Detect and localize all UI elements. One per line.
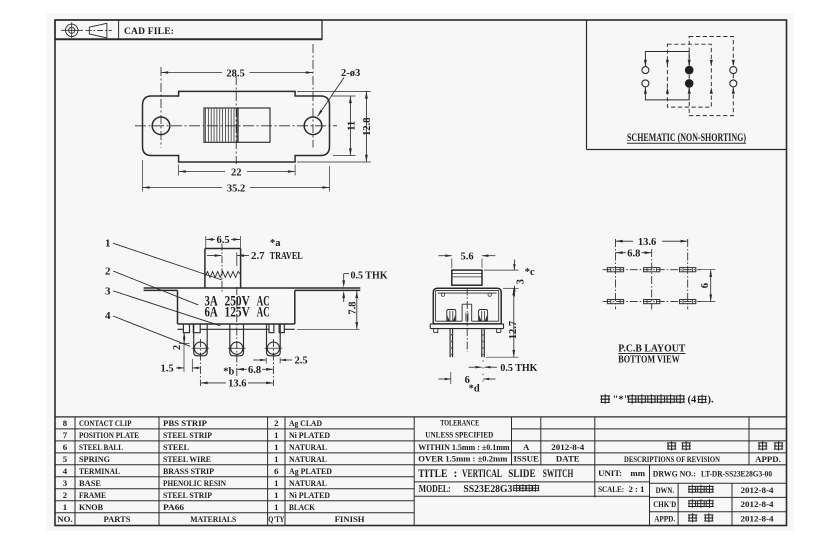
svg-text:2012-8-4: 2012-8-4 bbox=[741, 514, 775, 524]
svg-text:SCHEMATIC (NON-SHORTING): SCHEMATIC (NON-SHORTING) bbox=[627, 132, 746, 144]
dim 35.2 bbox=[142, 160, 144, 192]
svg-text:TERMINAL: TERMINAL bbox=[79, 466, 120, 476]
svg-text:DATE: DATE bbox=[556, 454, 580, 464]
svg-text:ISSUE: ISSUE bbox=[513, 454, 539, 464]
dim 12.7 bbox=[503, 287, 519, 289]
title header box bbox=[55, 20, 322, 39]
svg-text:NATURAL: NATURAL bbox=[289, 454, 327, 464]
svg-text:6: 6 bbox=[274, 466, 279, 476]
svg-text:*b: *b bbox=[223, 366, 234, 377]
svg-text:6.8: 6.8 bbox=[627, 248, 640, 259]
svg-text:6.5: 6.5 bbox=[216, 235, 229, 246]
side view: bottom flange bbox=[430, 324, 503, 329]
svg-text:FRAME: FRAME bbox=[79, 490, 106, 500]
svg-text:TITLE: TITLE bbox=[418, 468, 447, 480]
svg-text:2: 2 bbox=[63, 490, 68, 500]
svg-text:BOTTOM VIEW: BOTTOM VIEW bbox=[618, 354, 680, 366]
svg-text:0.5 THK: 0.5 THK bbox=[500, 363, 538, 374]
svg-text:CONTACT CLIP: CONTACT CLIP bbox=[79, 418, 132, 428]
top view: body vertical centerline bbox=[235, 76, 237, 164]
svg-text:4: 4 bbox=[105, 310, 111, 322]
svg-text:6: 6 bbox=[700, 283, 711, 288]
dim 13.6 (pcb) bbox=[616, 240, 634, 242]
front view: knob with break zigzag bbox=[205, 248, 241, 250]
svg-text:NO.: NO. bbox=[57, 514, 72, 524]
svg-text:Ni PLATED: Ni PLATED bbox=[289, 490, 330, 500]
side view: leg centerlines bbox=[450, 334, 452, 356]
schematic: dashed slider frame A bbox=[667, 44, 711, 107]
side view: right terminal section bbox=[479, 310, 488, 322]
side view: center post bbox=[462, 304, 472, 321]
svg-text:STEEL: STEEL bbox=[163, 442, 189, 452]
top view: right mounting hole bbox=[304, 117, 322, 135]
svg-text:8: 8 bbox=[63, 418, 68, 428]
top view: knob hatched grip bbox=[204, 108, 238, 142]
svg-text:5.6: 5.6 bbox=[460, 252, 473, 263]
svg-text:LT-DR-SS23E28G3-00: LT-DR-SS23E28G3-00 bbox=[701, 468, 772, 478]
svg-text:PARTS: PARTS bbox=[104, 514, 131, 524]
svg-text:1: 1 bbox=[274, 430, 278, 440]
dim 3 bbox=[484, 269, 519, 271]
front view: terminals bbox=[194, 325, 208, 356]
first-angle projection symbol: circle bbox=[66, 24, 78, 36]
svg-text:KNOB: KNOB bbox=[79, 502, 103, 512]
svg-text:MODEL:: MODEL: bbox=[419, 483, 451, 495]
svg-text:PBS STRIP: PBS STRIP bbox=[163, 418, 207, 428]
top view: left mounting hole bbox=[152, 117, 170, 135]
svg-text:2: 2 bbox=[105, 266, 111, 278]
svg-text:Ni PLATED: Ni PLATED bbox=[289, 430, 330, 440]
top view: right hole centerline bbox=[312, 44, 314, 148]
side view: floor line bbox=[436, 320, 499, 322]
pcb layout: column centerlines bbox=[615, 239, 617, 309]
svg-text:7.8: 7.8 bbox=[347, 301, 358, 314]
note (chinese): key dimensions bbox=[600, 394, 610, 404]
top view: switch plate outline bbox=[143, 91, 330, 162]
svg-text:NATURAL: NATURAL bbox=[289, 442, 327, 452]
svg-text:STEEL STRIP: STEEL STRIP bbox=[163, 490, 212, 500]
svg-text:Ag CLAD: Ag CLAD bbox=[289, 418, 322, 428]
front view: knob centerline bbox=[221, 244, 223, 292]
dim label 2-o3 leader bbox=[318, 78, 345, 117]
side view: left terminal section bbox=[447, 310, 456, 322]
dim 6.8 (pcb) bbox=[616, 252, 627, 254]
schematic: open terminals bbox=[642, 67, 649, 74]
svg-text:3: 3 bbox=[105, 285, 111, 297]
svg-text:DWN.: DWN. bbox=[656, 485, 675, 495]
parts table grid bbox=[55, 416, 787, 418]
schematic: common terminals (filled) bbox=[685, 66, 694, 75]
schematic: solid wire top bbox=[645, 52, 689, 67]
svg-text:APPD.: APPD. bbox=[755, 454, 781, 464]
svg-text:125V: 125V bbox=[225, 305, 251, 321]
svg-text:*a: *a bbox=[270, 238, 281, 249]
dim 2.7 TRAVEL bbox=[236, 253, 238, 267]
svg-text:SWITCH: SWITCH bbox=[543, 468, 574, 480]
svg-text:UNLESS SPECIFIED: UNLESS SPECIFIED bbox=[425, 429, 493, 439]
svg-text:WITHIN 1.5mm : ±0.1mm: WITHIN 1.5mm : ±0.1mm bbox=[418, 442, 510, 452]
svg-text:1: 1 bbox=[274, 478, 278, 488]
svg-text:1: 1 bbox=[274, 502, 278, 512]
svg-text:6: 6 bbox=[63, 442, 68, 452]
top view: knob slider body bbox=[238, 108, 270, 142]
svg-text:CAD FILE:: CAD FILE: bbox=[124, 27, 174, 37]
side view: PCB legs bbox=[450, 329, 453, 358]
svg-text:SS23E28G3: SS23E28G3 bbox=[463, 483, 512, 495]
svg-text:(4: (4 bbox=[688, 395, 697, 406]
svg-text:UNIT: UNIT bbox=[598, 468, 620, 478]
dim 1.5 bbox=[183, 333, 185, 372]
svg-text:4: 4 bbox=[63, 466, 68, 476]
schematic: contact arrows bbox=[644, 60, 647, 66]
dim 0.5 THK (leg) bbox=[469, 366, 482, 368]
front view: terminal centerlines bbox=[199, 339, 201, 386]
dim 6 (pcb) bbox=[699, 269, 715, 271]
svg-text:AC: AC bbox=[257, 305, 270, 321]
svg-text::: : bbox=[619, 468, 622, 478]
svg-text:"*": "*" bbox=[613, 395, 630, 406]
svg-text:*c: *c bbox=[525, 267, 535, 278]
first-angle projection symbol: cone bbox=[89, 23, 107, 38]
dim 22 bbox=[178, 165, 180, 176]
pcb layout: pads bbox=[607, 268, 623, 272]
svg-text:PHENOLIC RESIN: PHENOLIC RESIN bbox=[163, 478, 227, 488]
svg-text:2-ø3: 2-ø3 bbox=[341, 68, 360, 79]
svg-text:).: ). bbox=[708, 395, 714, 406]
dim 28.5 bbox=[161, 72, 222, 74]
dim 2.5 bbox=[265, 358, 267, 364]
svg-text:1: 1 bbox=[274, 442, 278, 452]
svg-text:OVER 1.5mm : ±0.2mm: OVER 1.5mm : ±0.2mm bbox=[418, 453, 508, 463]
svg-text:CHK'D: CHK'D bbox=[653, 499, 676, 509]
svg-text:Ag PLATED: Ag PLATED bbox=[289, 466, 332, 476]
svg-text:2: 2 bbox=[274, 418, 279, 428]
svg-text:MATERIALS: MATERIALS bbox=[190, 514, 236, 524]
dim 6 bbox=[450, 372, 452, 384]
svg-text:22: 22 bbox=[231, 167, 242, 178]
dim 7.8 bbox=[297, 328, 360, 330]
dim 6.5 bbox=[205, 236, 207, 249]
svg-text:STEEL BALL: STEEL BALL bbox=[79, 442, 123, 452]
svg-text:2012-8-4: 2012-8-4 bbox=[741, 499, 775, 509]
svg-text:SLIDE: SLIDE bbox=[508, 468, 536, 480]
svg-text:6.8: 6.8 bbox=[248, 365, 261, 376]
svg-text:SCALE:: SCALE: bbox=[598, 484, 624, 494]
svg-text:DRWG NO.:: DRWG NO.: bbox=[653, 468, 696, 478]
svg-text:STEEL STRIP: STEEL STRIP bbox=[163, 430, 212, 440]
svg-text:3: 3 bbox=[516, 279, 527, 284]
svg-text:Q'TY: Q'TY bbox=[268, 514, 284, 524]
svg-text:12.8: 12.8 bbox=[362, 118, 373, 136]
svg-text:PA66: PA66 bbox=[163, 502, 184, 512]
svg-text:7: 7 bbox=[63, 430, 68, 440]
svg-text:28.5: 28.5 bbox=[226, 68, 244, 79]
front view: base bottom inner line bbox=[178, 328, 184, 330]
schematic: dashed slider frame B bbox=[689, 37, 733, 116]
front view: terminal holes bbox=[194, 342, 206, 354]
svg-text:12.7: 12.7 bbox=[508, 321, 519, 339]
title block grid bbox=[414, 440, 786, 442]
svg-text:0.5 THK: 0.5 THK bbox=[351, 270, 389, 281]
front view: body outline bbox=[177, 290, 179, 324]
front view: mounting plate bar bbox=[144, 287, 361, 289]
svg-text:5: 5 bbox=[63, 454, 68, 464]
svg-text:11: 11 bbox=[346, 121, 357, 131]
svg-text:mm: mm bbox=[630, 468, 645, 478]
side view: knob bbox=[452, 270, 482, 285]
svg-text:NATURAL: NATURAL bbox=[289, 478, 327, 488]
dim 6.8 bbox=[238, 368, 248, 370]
svg-text:*d: *d bbox=[469, 384, 480, 395]
svg-text:6A: 6A bbox=[205, 305, 219, 321]
svg-text:APPD.: APPD. bbox=[654, 514, 675, 524]
dim 11 bbox=[332, 95, 356, 97]
svg-text:STEEL WIRE: STEEL WIRE bbox=[163, 454, 211, 464]
svg-text:TRAVEL: TRAVEL bbox=[270, 250, 303, 262]
svg-text:2 : 1: 2 : 1 bbox=[629, 484, 645, 494]
svg-text:2.7: 2.7 bbox=[251, 250, 265, 262]
dim 0.5 THK (plate) bbox=[344, 273, 349, 275]
side view: flange feet bbox=[434, 329, 438, 333]
schematic: solid wire bottom bbox=[645, 87, 689, 100]
svg-text:13.6: 13.6 bbox=[228, 379, 246, 390]
side view: inner frame bbox=[436, 291, 499, 322]
front view: base feet bbox=[183, 324, 189, 333]
svg-text:DESCRIPTIONS OF REVISION: DESCRIPTIONS OF REVISION bbox=[624, 454, 720, 464]
dim 2 bbox=[179, 342, 190, 344]
pcb layout: row centerlines bbox=[603, 269, 701, 271]
svg-text:TOLERANCE: TOLERANCE bbox=[440, 417, 479, 427]
schematic box divider bbox=[586, 20, 588, 150]
dim 12.8 bbox=[297, 90, 371, 92]
svg-text:3: 3 bbox=[63, 478, 68, 488]
svg-text:BRASS STRIP: BRASS STRIP bbox=[163, 466, 214, 476]
svg-text:1: 1 bbox=[274, 454, 278, 464]
svg-text:A: A bbox=[523, 442, 530, 452]
svg-text:1: 1 bbox=[63, 502, 67, 512]
svg-text:2: 2 bbox=[172, 345, 183, 350]
svg-text:1: 1 bbox=[105, 238, 111, 250]
svg-text:VERTICAL: VERTICAL bbox=[462, 468, 502, 480]
svg-text:13.6: 13.6 bbox=[638, 237, 656, 248]
svg-text:2.5: 2.5 bbox=[295, 356, 308, 367]
top view: left hole centerline bbox=[160, 67, 162, 148]
dim 5.6 bbox=[451, 259, 453, 269]
svg-text:P.C.B LAYOUT: P.C.B LAYOUT bbox=[618, 342, 686, 354]
svg-text:SPRING: SPRING bbox=[79, 454, 110, 464]
side view: centerline bbox=[466, 288, 468, 353]
svg-text:2012-8-4: 2012-8-4 bbox=[551, 442, 585, 452]
svg-text:1: 1 bbox=[274, 490, 278, 500]
svg-text:FINISH: FINISH bbox=[335, 514, 365, 524]
svg-text:BASE: BASE bbox=[79, 478, 101, 488]
svg-text:2012-8-4: 2012-8-4 bbox=[741, 485, 775, 495]
svg-text:POSITION PLATE: POSITION PLATE bbox=[79, 430, 139, 440]
svg-text:1.5: 1.5 bbox=[161, 364, 174, 375]
svg-text:BLACK: BLACK bbox=[289, 502, 315, 512]
svg-text::: : bbox=[454, 468, 458, 480]
top view: horizontal centerline bbox=[135, 125, 337, 127]
descriptions of revision bbox=[667, 441, 676, 450]
svg-text:35.2: 35.2 bbox=[227, 183, 245, 194]
side view: body outer bbox=[433, 288, 501, 324]
dim 13.6 bbox=[201, 382, 226, 384]
